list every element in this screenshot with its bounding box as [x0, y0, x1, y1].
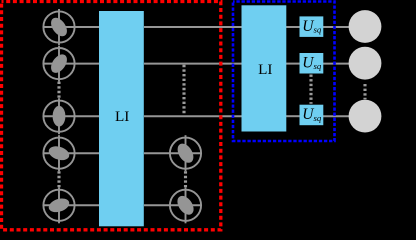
svg-text:LI: LI	[258, 61, 272, 78]
linear interferometer LI (small)	[242, 5, 287, 131]
box Usq1	[300, 16, 324, 37]
ellipsis between source 2 and 3	[57, 82, 60, 99]
wire mode row y=63.6 LI to LI2	[144, 63, 242, 65]
output detector 1	[349, 10, 382, 43]
wire mode row y=153.2 LI to output state	[144, 152, 201, 154]
wire mode row y=27 LI to LI2	[144, 26, 242, 28]
squeezed vacuum source 5	[43, 187, 74, 223]
ellipsis between detector 2 and 3	[363, 84, 366, 99]
output squeezed state B	[170, 187, 201, 223]
wire mode row y=205.3 LI to output state	[144, 204, 201, 206]
svg-text:LI: LI	[115, 108, 129, 125]
ellipsis between output state A and B	[184, 171, 187, 187]
ellipsis between source 4 and 5	[57, 171, 60, 187]
red dashed box around sources and LI	[2, 2, 221, 230]
blue dashed box around LI2 and Usq	[233, 2, 335, 142]
wire mode row y=116.2 Usq to detector	[323, 115, 349, 117]
wire mode row y=153.2 left of LI	[43, 152, 99, 154]
wire mode row y=116.2 LI to LI2	[144, 115, 242, 117]
wire mode row y=116.2 LI2 to Usq	[286, 115, 300, 117]
output detector 2	[349, 47, 382, 80]
squeezed vacuum source 3	[43, 98, 74, 134]
squeezed vacuum source 1	[43, 9, 74, 45]
box Usq2	[300, 53, 324, 74]
wire mode row y=63.6 Usq to detector	[323, 63, 349, 65]
wire mode row y=63.6 left of LI	[43, 63, 99, 65]
squeezed vacuum source 2	[43, 46, 74, 82]
ellipsis between Usq2 and Usq3	[309, 75, 312, 104]
wire mode row y=27 left of LI	[43, 26, 99, 28]
wire mode row y=27 LI2 to Usq	[286, 26, 300, 28]
linear interferometer LI (large)	[99, 11, 144, 226]
wire mode row y=205.3 left of LI	[43, 204, 99, 206]
ellipsis between wire rows 2 and 3	[182, 65, 185, 115]
wire mode row y=63.6 LI2 to Usq	[286, 63, 300, 65]
wire mode row y=116.2 left of LI	[43, 115, 99, 117]
output detector 3	[349, 100, 382, 133]
output squeezed state A	[170, 135, 201, 171]
box Usq3	[300, 105, 324, 126]
wire mode row y=27 Usq to detector	[323, 26, 349, 28]
squeezed vacuum source 4	[43, 135, 74, 171]
